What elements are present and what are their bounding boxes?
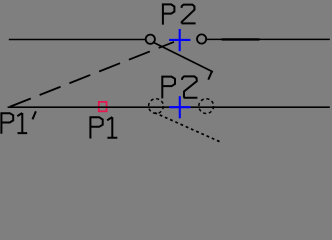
wire: short dashed diagonal line xyxy=(155,113,222,143)
wire: bottom horizontal line xyxy=(8,106,330,108)
wire: top horizontal line right segment xyxy=(207,38,330,40)
label P2 (top) xyxy=(163,4,196,24)
point marker P2 blue cross xyxy=(169,29,190,51)
label P1' (bottom left) xyxy=(1,111,36,134)
point marker P2' blue cross xyxy=(169,96,190,118)
wire: top horizontal line left segment xyxy=(9,39,146,41)
node circle right endpoint xyxy=(197,34,206,43)
label P2' (middle) xyxy=(162,71,212,98)
wire: long dashed construction line xyxy=(8,42,174,108)
label P1 (bottom middle) xyxy=(90,117,117,138)
dashed circle B xyxy=(199,99,214,114)
wire: solid diagonal line xyxy=(154,43,213,72)
dashed circle A xyxy=(149,99,164,114)
node circle left endpoint xyxy=(146,35,155,44)
wire: thick highlighted segment on top line xyxy=(222,38,260,40)
red square grip P1 xyxy=(99,102,107,112)
